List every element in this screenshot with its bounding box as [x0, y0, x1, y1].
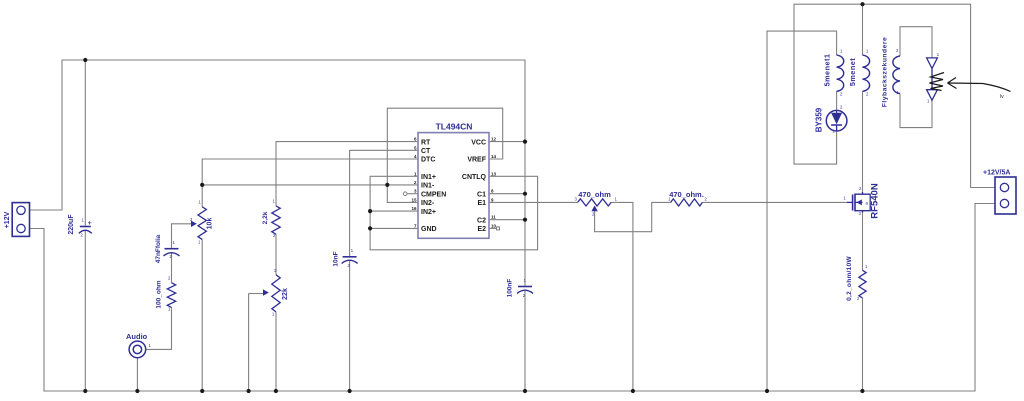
svg-text:12: 12 [491, 137, 497, 142]
svg-text:lv: lv [1000, 94, 1004, 100]
svg-text:10nF: 10nF [332, 251, 339, 266]
svg-text:+12V: +12V [4, 211, 11, 228]
svg-text:5menet1: 5menet1 [822, 54, 831, 87]
svg-text:GND: GND [421, 226, 437, 233]
svg-text:VREF: VREF [467, 157, 486, 164]
svg-text:15: 15 [411, 197, 417, 202]
svg-text:IN1-: IN1- [421, 183, 435, 190]
svg-text:100_ohm: 100_ohm [155, 280, 162, 308]
svg-text:CT: CT [421, 148, 431, 155]
svg-text:16: 16 [411, 206, 417, 211]
svg-text:Flybackszekundere: Flybackszekundere [882, 37, 889, 107]
svg-text:C1: C1 [477, 191, 486, 198]
svg-text:+: + [88, 220, 92, 227]
svg-text:VCC: VCC [471, 139, 486, 146]
svg-text:5menet: 5menet [848, 58, 857, 86]
svg-text:220uF: 220uF [68, 214, 75, 235]
svg-text:IN1+: IN1+ [421, 174, 436, 181]
svg-text:0,2_ohm/10W: 0,2_ohm/10W [846, 256, 853, 301]
svg-text:100nF: 100nF [506, 279, 513, 298]
svg-text:IN2+: IN2+ [421, 209, 436, 216]
svg-text:2,2k: 2,2k [262, 211, 269, 224]
svg-text:DTC: DTC [421, 157, 435, 164]
svg-text:E1: E1 [477, 200, 486, 207]
svg-text:BY359: BY359 [815, 107, 824, 132]
svg-text:10: 10 [491, 223, 497, 228]
svg-text:470_ohm: 470_ohm [578, 190, 611, 199]
svg-text:TL494CN: TL494CN [436, 122, 473, 132]
svg-text:+12V/5A: +12V/5A [983, 170, 1010, 177]
svg-text:RF540N: RF540N [870, 183, 881, 219]
svg-text:Audio: Audio [126, 332, 148, 341]
svg-text:CNTLQ: CNTLQ [462, 174, 487, 181]
svg-text:13: 13 [491, 171, 497, 176]
svg-text:470_ohm.: 470_ohm. [669, 190, 704, 199]
svg-text:22k: 22k [282, 288, 289, 300]
svg-text:IN2-: IN2- [421, 200, 435, 207]
svg-text:11: 11 [491, 215, 496, 220]
svg-text:CMPEN: CMPEN [421, 191, 446, 198]
svg-text:E2: E2 [477, 226, 486, 233]
svg-text:C2: C2 [477, 217, 486, 224]
svg-text:47nFfolia: 47nFfolia [155, 234, 162, 263]
svg-text:RT: RT [421, 139, 431, 146]
svg-text:10k: 10k [207, 218, 214, 230]
svg-text:14: 14 [491, 154, 497, 159]
